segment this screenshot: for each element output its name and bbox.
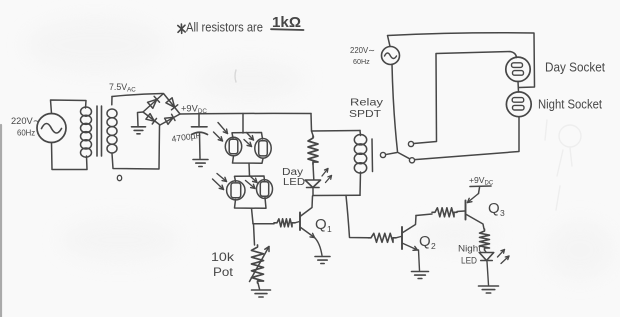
diode D1 (top-left) (148, 96, 160, 108)
label Q1 (315, 216, 332, 234)
wire day to night socket (517, 82, 520, 93)
svg-text:1: 1 (327, 224, 332, 234)
label +9VDC (181, 104, 207, 116)
resistor R2 (day led) (308, 136, 318, 164)
label Q3 (488, 200, 505, 218)
light arrows PT3 (213, 174, 227, 190)
transformer T1 secondary winding (107, 109, 117, 153)
wire pair1 to pair2 (248, 163, 251, 176)
night LED arrows (498, 250, 510, 264)
AC source V2 (382, 47, 400, 65)
wire R3 to Q2 base (396, 237, 401, 238)
label Day Socket (545, 60, 605, 75)
transistor Q1 (300, 196, 315, 238)
wire node A to base resistor (253, 223, 274, 225)
relay throw contact NO (409, 158, 414, 163)
svg-text:LED: LED (461, 256, 477, 267)
night socket (506, 92, 531, 117)
supply +9VDC (Q3) (469, 175, 494, 187)
svg-text:Day Socket: Day Socket (545, 60, 605, 75)
label o (node) (117, 175, 121, 180)
ground (Q1) (315, 257, 330, 264)
day socket (506, 57, 530, 81)
wire Q2 emitter to ground (419, 250, 420, 271)
light arrows PT4 (246, 176, 258, 189)
relay box top edge (312, 130, 361, 133)
erased ghost sketch (545, 120, 581, 210)
label 7.5VAC (109, 82, 136, 94)
relay common contact (380, 152, 397, 157)
svg-text:All resistors are: All resistors are (186, 21, 263, 35)
wire R4 to Q3 base (457, 210, 465, 213)
svg-text:Relay: Relay (350, 98, 383, 109)
resistor R3 (Q2 base) (368, 233, 396, 242)
phototransistor PT2 (255, 139, 271, 159)
svg-text:220V∼: 220V∼ (11, 116, 41, 126)
label Relay SPDT (349, 98, 383, 121)
relay coil (354, 135, 366, 174)
day LED arrows (322, 169, 332, 183)
diode D4 (bottom-right) (165, 114, 175, 124)
wire coil bottom (359, 172, 362, 195)
transformer T1 core (97, 106, 102, 156)
label Day LED (282, 167, 305, 188)
wire NC contact to day socket (414, 52, 517, 144)
wire day LED to box bottom (312, 189, 314, 196)
wire coil top (359, 131, 362, 136)
bridge rectifier diamond (143, 94, 180, 126)
AC source V1 (37, 114, 66, 143)
relay box bottom edge (313, 194, 360, 196)
wire V2 to socket junction (388, 33, 535, 88)
wire relay box to Q2 resistor (346, 195, 368, 237)
ground (pot) (252, 290, 271, 297)
capacitor C1 4700uF (192, 127, 208, 159)
note: All resistors are 1k ohm (178, 14, 304, 35)
light arrows PT2 (244, 133, 254, 147)
ground (bridge) (132, 127, 146, 134)
night LED D6 (479, 250, 494, 261)
wire secondary top to bridge (112, 94, 163, 105)
ground (capacitor) (193, 160, 208, 167)
transformer T1 primary winding (81, 107, 92, 157)
svg-text:LED: LED (283, 177, 305, 188)
phototransistor PT3 (227, 181, 245, 200)
wire rail corner down (311, 114, 314, 138)
resistor R1 (Q1 base) (274, 219, 295, 227)
svg-text:Q: Q (488, 200, 500, 217)
wire V1 to transformer primary (51, 100, 88, 170)
svg-text:3: 3 (500, 208, 505, 218)
day LED D5 (305, 180, 321, 188)
wire pair2 to node A (252, 208, 254, 223)
label 10k Pot (211, 250, 235, 279)
svg-text:60Hz: 60Hz (17, 129, 35, 138)
pot wiper arrow (250, 247, 270, 282)
transistor Q3 (PNP) (466, 188, 485, 230)
ground (night LED) (479, 286, 499, 293)
relay core line (371, 139, 374, 172)
svg-text:Pot: Pot (213, 265, 234, 279)
label Night LED (458, 244, 481, 267)
transistor Q2 (402, 216, 418, 251)
svg-text:60Hz: 60Hz (353, 57, 370, 66)
label 220V AC 60Hz (left source) (11, 116, 41, 138)
resistor R4 (Q3 base) (432, 208, 457, 217)
phototransistor PT1 (225, 137, 241, 156)
wire V2 to relay common (392, 64, 398, 151)
wire bridge left vertex to ground (138, 112, 144, 126)
svg-text:10k: 10k (211, 250, 235, 264)
label Night Socket (538, 97, 602, 112)
faint pencil mark (235, 70, 236, 82)
diode D3 (bottom-left) (146, 114, 157, 124)
relay throw contact NC (408, 141, 413, 146)
phototransistor PT4 (257, 180, 273, 199)
svg-text:Q: Q (419, 233, 431, 250)
label Q2 (419, 233, 436, 251)
svg-text:220V∼: 220V∼ (350, 46, 375, 55)
wire Q2 collector to R4 (416, 214, 432, 216)
wire +9V rail (180, 112, 311, 115)
label 220V AC 60Hz (right source) (350, 46, 375, 66)
paper edge shadow left (0, 125, 2, 317)
svg-text:Night Socket: Night Socket (538, 97, 602, 112)
wire Q1 emitter to ground (315, 238, 323, 256)
label 4700uF (171, 130, 201, 144)
resistor R5 (night led) (480, 229, 490, 250)
wire NO contact to night socket (415, 117, 519, 160)
wire pot to ground (258, 283, 260, 289)
svg-text:2: 2 (431, 241, 436, 251)
wire R1 to Q1 base (295, 222, 300, 223)
sensor pair 1 frame (232, 133, 263, 164)
wire secondary bottom loop (112, 126, 160, 170)
relay arm (398, 153, 410, 159)
wire night LED to ground (487, 262, 489, 286)
wire rail to sensor pair 1 (242, 114, 244, 134)
light arrows PT1 (214, 123, 228, 142)
svg-text:Q: Q (315, 216, 327, 233)
wire R2 to day LED (312, 164, 315, 180)
wire node A to pot (254, 224, 255, 245)
ground (Q2) (412, 272, 429, 279)
sensor pair 2 frame (235, 176, 267, 208)
wire rail to capacitor (198, 114, 200, 127)
potentiometer 10k (252, 245, 264, 283)
diode D2 (top-right) (166, 98, 178, 110)
svg-text:Night: Night (458, 244, 481, 255)
svg-text:SPDT: SPDT (349, 109, 381, 120)
